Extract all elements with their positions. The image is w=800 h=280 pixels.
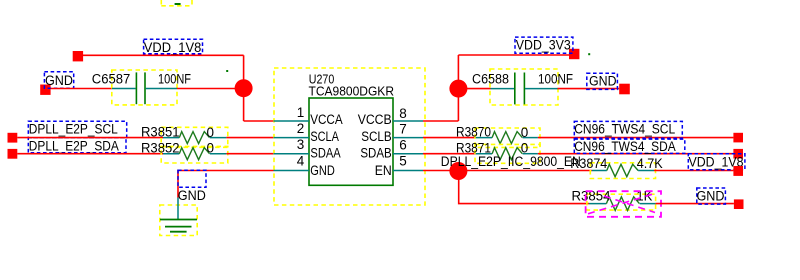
svg-text:GND: GND xyxy=(589,74,617,89)
svg-text:R3874: R3874 xyxy=(570,156,607,171)
pin 4 stub GND xyxy=(274,170,310,172)
wire pin 7 SCLB to R3870 xyxy=(423,137,476,139)
net port DPLL_E2P_SCL : terminal square xyxy=(8,133,18,143)
wire pin 4 GND to ground xyxy=(178,171,274,198)
svg-text:8: 8 xyxy=(399,106,407,121)
net label VDD_1V8 (left) xyxy=(144,39,203,55)
wire R3852 to pin 3 SDAA xyxy=(226,153,273,155)
pin 3 stub SDAA xyxy=(274,153,310,155)
svg-text:R3851: R3851 xyxy=(141,125,180,140)
magenta DNI selection box on R3854 xyxy=(586,191,661,217)
svg-text:SCLA: SCLA xyxy=(310,129,339,144)
wire to pin 8 VCCB xyxy=(423,120,458,122)
svg-text:6: 6 xyxy=(399,137,407,152)
ground port GND (bottom right) : terminal square xyxy=(734,199,744,209)
pin 7 stub SCLB xyxy=(393,137,423,139)
net port CN96_TWS4_SCL : terminal square xyxy=(733,133,743,143)
ground port GND (right of C6588) : terminal square xyxy=(619,84,630,95)
net label GND (left) xyxy=(44,72,73,88)
grid dot near C6587 xyxy=(226,70,228,72)
wire EN junction down to R3854 row xyxy=(459,171,589,204)
svg-text:100NF: 100NF xyxy=(538,72,573,87)
wire R3870 to CN96_TWS4_SCL xyxy=(538,137,734,139)
svg-text:EN: EN xyxy=(375,163,392,178)
wire VDD_1V8 rail (left) xyxy=(83,54,244,56)
wire to pin 1 VCCA xyxy=(244,120,274,122)
wire R3871 to CN96_TWS4_SDA xyxy=(538,153,734,155)
resistor R3871 0 xyxy=(456,140,540,163)
svg-text:GND: GND xyxy=(178,188,206,203)
svg-text:GND: GND xyxy=(697,189,725,204)
svg-text:CN96_TWS4_SDA: CN96_TWS4_SDA xyxy=(574,139,676,154)
net port CN96_TWS4_SDA : terminal square xyxy=(733,149,743,159)
net label GND (bottom right) xyxy=(697,188,726,204)
wire vertical VDD_3V3 drop to pin 8 xyxy=(457,55,459,121)
wire junction to C6588 xyxy=(458,88,490,90)
svg-text:VCCA: VCCA xyxy=(310,112,343,127)
svg-text:0: 0 xyxy=(521,125,529,140)
svg-text:4.7K: 4.7K xyxy=(637,156,663,171)
wire pin 6 SDAB to R3871 xyxy=(423,153,476,155)
svg-text:GND: GND xyxy=(45,73,73,88)
wire C6587 to junction xyxy=(177,88,244,90)
magenta cross stroke 1 xyxy=(588,194,652,214)
pin 8 stub VCCB xyxy=(393,120,423,122)
resistor R3851 0 xyxy=(141,125,228,148)
pin 5 stub EN xyxy=(393,170,423,172)
pin 2 stub SCLA xyxy=(274,137,310,139)
capacitor C6588 100NF xyxy=(472,69,573,105)
net label CN96_TWS4_SCL xyxy=(574,121,682,138)
wire GND to C6587 xyxy=(51,88,112,90)
wire R3874 to VDD_1V8 port xyxy=(654,170,733,172)
grid dot near VDD_3V3 xyxy=(588,53,590,55)
net label VDD_1V8 (right) xyxy=(688,154,745,170)
svg-text:3: 3 xyxy=(297,137,305,152)
svg-text:0: 0 xyxy=(207,141,215,156)
wire VDD_3V3 rail xyxy=(458,54,569,56)
wire R3851 to pin 2 SCLA xyxy=(226,137,273,139)
svg-text:4: 4 xyxy=(297,153,305,168)
svg-text:DPLL_E2P_SCL: DPLL_E2P_SCL xyxy=(29,121,118,136)
svg-text:C6588: C6588 xyxy=(472,72,509,87)
ground port GND (left) : terminal square xyxy=(40,85,50,95)
net label DPLL_E2P_SCL xyxy=(28,121,126,137)
svg-text:TCA9800DGKR: TCA9800DGKR xyxy=(309,84,395,99)
svg-text:1: 1 xyxy=(297,105,305,120)
svg-text:SDAB: SDAB xyxy=(360,146,391,161)
svg-text:SDAA: SDAA xyxy=(310,146,340,161)
power port VDD_3V3 : terminal square xyxy=(569,49,579,59)
resistor R3854 1K (marked DNI) xyxy=(572,189,662,217)
svg-text:C6587: C6587 xyxy=(92,71,131,86)
svg-text:5: 5 xyxy=(399,154,407,169)
resistor R3870 0 xyxy=(456,125,540,148)
svg-text:R3852: R3852 xyxy=(141,140,180,155)
junction node on EN net xyxy=(449,162,467,180)
power port VDD_1V8 (right) : terminal square xyxy=(733,166,743,176)
pin 1 stub VCCA xyxy=(274,120,310,122)
net label GND (right of C6588) xyxy=(587,73,618,89)
wire vertical VDD_1V8 drop to pin 1 xyxy=(243,55,245,121)
svg-text:2: 2 xyxy=(297,121,305,136)
pin 6 stub SDAB xyxy=(393,153,423,155)
svg-text:DPLL_E2P_SDA: DPLL_E2P_SDA xyxy=(29,139,119,154)
svg-text:CN96_TWS4_SCL: CN96_TWS4_SCL xyxy=(574,122,675,137)
ground symbol xyxy=(160,198,197,236)
wire DPLL_E2P_SDA to R3852 xyxy=(17,153,163,155)
svg-text:VCCB: VCCB xyxy=(358,112,392,127)
wire pin 5 EN to R3874 xyxy=(423,170,592,172)
op-amp/IC U270 TCA9800DGKR xyxy=(274,68,426,205)
svg-text:DPLL_E2P_IIC_9800_EN: DPLL_E2P_IIC_9800_EN xyxy=(441,154,581,169)
svg-text:100NF: 100NF xyxy=(158,71,191,86)
magenta cross stroke 2 xyxy=(604,196,655,213)
net label DPLL_E2P_SDA xyxy=(28,138,126,154)
wire C6588 to GND port xyxy=(558,88,620,90)
svg-text:R3870: R3870 xyxy=(456,125,491,140)
empty blue selection box at GND corner xyxy=(178,170,206,187)
net label CN96_TWS4_SDA xyxy=(574,139,685,154)
junction node on VDD_3V3 / C6588 xyxy=(449,80,467,98)
svg-text:0: 0 xyxy=(207,125,215,140)
resistor R3874 4.7K xyxy=(570,156,662,179)
svg-text:SCLB: SCLB xyxy=(361,129,392,144)
clipped component at top edge (partial yellow selection box) xyxy=(161,0,192,6)
net port DPLL_E2P_SDA : terminal square xyxy=(8,149,18,159)
net label VDD_3V3 xyxy=(515,37,573,53)
svg-text:VDD_3V3: VDD_3V3 xyxy=(516,38,571,53)
power port VDD_1V8 (left) : terminal square xyxy=(73,51,83,61)
svg-text:GND: GND xyxy=(310,163,335,178)
capacitor C6587 100NF xyxy=(92,70,191,105)
resistor R3852 0 xyxy=(141,140,228,163)
junction node on VDD_1V8 / C6587 xyxy=(235,79,253,97)
svg-text:7: 7 xyxy=(399,122,407,137)
wire R3854 to GND port xyxy=(656,203,734,205)
svg-text:VDD_1V8: VDD_1V8 xyxy=(144,40,202,55)
wire DPLL_E2P_SCL to R3851 xyxy=(17,137,163,139)
